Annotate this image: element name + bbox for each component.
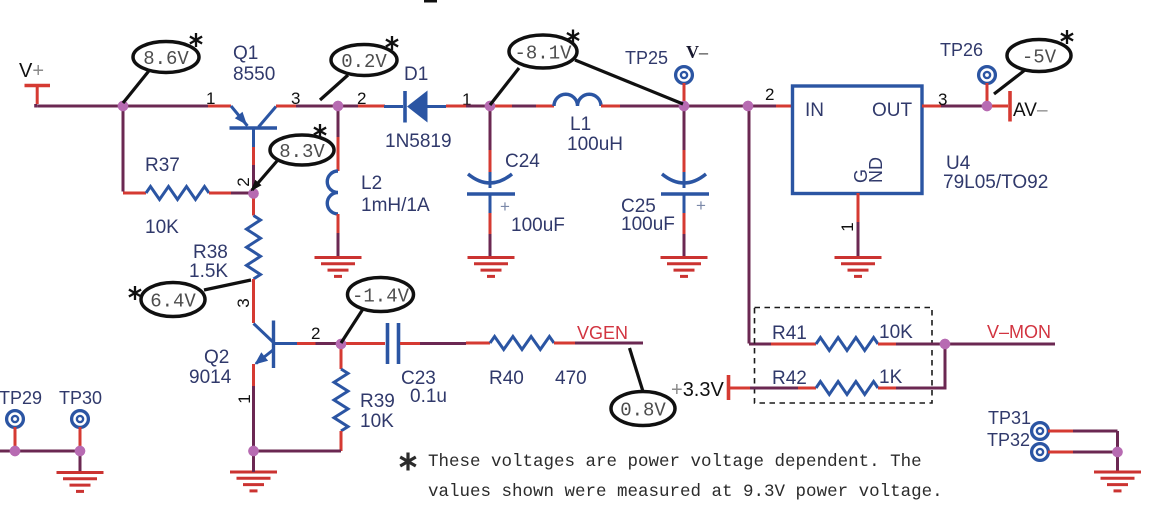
svg-text:values shown were measured at: values shown were measured at 9.3V power… xyxy=(428,482,943,502)
inductor L2 xyxy=(327,171,338,214)
svg-text:+: + xyxy=(696,196,706,215)
svg-text:R42: R42 xyxy=(772,368,807,389)
test point TP29 xyxy=(7,411,24,448)
pin 2 label Q2 base xyxy=(311,324,320,343)
callout -5V xyxy=(994,30,1073,94)
callout -1.4V xyxy=(341,278,414,344)
svg-text:10K: 10K xyxy=(145,217,179,238)
wire junction D down to C25 xyxy=(683,106,686,188)
TP32 label xyxy=(987,430,1030,450)
wire junction C down to C24 xyxy=(489,106,492,188)
wire junction F to AV- bar xyxy=(990,105,1008,108)
svg-text:0.1u: 0.1u xyxy=(410,386,447,407)
svg-text:0.2V: 0.2V xyxy=(341,51,387,73)
svg-text:These voltages are power volta: These voltages are power voltage depende… xyxy=(428,452,922,472)
svg-text:1mH/1A: 1mH/1A xyxy=(361,195,430,216)
TP25 label xyxy=(625,48,668,68)
wire junction I to C23 xyxy=(345,342,385,345)
wire U4 OUT to junction F xyxy=(922,105,987,108)
svg-text:L1: L1 xyxy=(570,114,591,135)
Q1 designator label xyxy=(233,43,275,85)
svg-text:TP32: TP32 xyxy=(987,430,1030,450)
callout 6.4V xyxy=(129,280,251,317)
ground under Q2 xyxy=(230,451,277,491)
wire junction H to V-MON xyxy=(945,343,1055,346)
wire junction I to R39 xyxy=(340,344,343,369)
wire Q2 base to junction I xyxy=(297,342,341,345)
resistor R42 xyxy=(816,382,878,395)
wire R41 left stub xyxy=(771,343,816,346)
svg-text:AV–: AV– xyxy=(1013,100,1048,121)
node C junction xyxy=(485,101,495,111)
power V+ label xyxy=(19,60,44,82)
U4 OUT pin name xyxy=(872,100,913,121)
wire junction M to ground xyxy=(1116,452,1119,472)
R37 value label xyxy=(145,217,179,238)
svg-text:R37: R37 xyxy=(145,155,180,176)
pin 3 label Q1 xyxy=(291,89,300,108)
test point TP31 xyxy=(1032,423,1073,440)
svg-text:L2: L2 xyxy=(361,173,382,194)
svg-text:-5V: -5V xyxy=(1022,47,1057,69)
svg-text:470: 470 xyxy=(555,368,587,389)
power V+ bar xyxy=(25,86,51,105)
U4 designator label xyxy=(943,153,1048,193)
svg-text:OUT: OUT xyxy=(872,100,913,121)
svg-text:V–: V– xyxy=(686,42,709,62)
wire R38 to Q2 collector xyxy=(252,279,255,323)
wire junction A to Q1 pin1 xyxy=(123,105,231,108)
wire Q1 base to junction G xyxy=(252,147,255,190)
svg-text:V–MON: V–MON xyxy=(987,322,1051,342)
svg-text:TP25: TP25 xyxy=(625,48,668,68)
wire R39 to bottom rail xyxy=(254,431,342,451)
wire D1 to junction C xyxy=(446,105,490,108)
callout -8.1V xyxy=(490,30,683,106)
node B junction xyxy=(333,101,343,111)
pin 3 label U4 OUT xyxy=(938,90,947,109)
test point TP32 xyxy=(1032,444,1073,461)
svg-text:TP31: TP31 xyxy=(988,408,1031,428)
net label V-MON xyxy=(987,322,1051,342)
svg-text:100uF: 100uF xyxy=(511,215,565,236)
D1 designator label xyxy=(404,64,428,85)
resistor R39 xyxy=(334,369,348,431)
wire TP31 to junction M xyxy=(1073,431,1118,452)
svg-text:10K: 10K xyxy=(360,411,394,432)
node E junction xyxy=(743,101,753,111)
pin 1 label U4 GND xyxy=(838,222,857,231)
wire R40 to VGEN end xyxy=(554,342,643,345)
C23 value label xyxy=(410,386,447,407)
svg-text:-1.4V: -1.4V xyxy=(352,286,410,308)
pin 2 label Q1 base xyxy=(234,177,253,186)
svg-text:8.3V: 8.3V xyxy=(279,141,325,163)
svg-text:TP30: TP30 xyxy=(59,388,102,408)
wire R41 to junction H xyxy=(878,343,945,346)
wire Q2 emitter down xyxy=(252,364,255,451)
C24 value label xyxy=(511,215,565,236)
wire junction D to junction E xyxy=(684,105,748,108)
wire junction C to L1 xyxy=(494,105,554,108)
node D junction xyxy=(679,101,689,111)
capacitor C25 xyxy=(661,174,709,194)
node H junction xyxy=(940,339,950,349)
Q2 designator label xyxy=(189,347,232,388)
wire R37 to junction G xyxy=(209,192,250,195)
svg-text:2: 2 xyxy=(765,85,774,104)
power AV- label xyxy=(1013,100,1048,121)
svg-text:0.8V: 0.8V xyxy=(620,400,666,422)
U4 IN pin name xyxy=(805,100,824,121)
test point TP26 xyxy=(979,67,996,103)
net label VGEN xyxy=(577,323,628,343)
resistor R41 xyxy=(816,338,878,351)
node J junction xyxy=(248,446,258,456)
svg-text:R39: R39 xyxy=(360,391,395,412)
L2 value label xyxy=(361,195,430,216)
R40 designator label xyxy=(489,368,524,389)
svg-text:-8.1V: -8.1V xyxy=(514,43,572,65)
transistor Q2 xyxy=(254,321,298,369)
wire junction E to U4 IN xyxy=(748,105,792,108)
C25 plus sign xyxy=(696,196,706,215)
wire +3.3V to R42 xyxy=(750,387,816,390)
wire L2 to ground xyxy=(337,214,340,258)
svg-text:6.4V: 6.4V xyxy=(150,291,196,313)
wire L1 to junction D xyxy=(601,105,684,108)
svg-text:R40: R40 xyxy=(489,368,524,389)
wire junction G to R38 xyxy=(252,194,255,216)
wire C23 to R40 xyxy=(400,342,490,346)
resistor R38 xyxy=(247,216,261,280)
svg-text:+3.3V: +3.3V xyxy=(671,379,724,401)
svg-text:VGEN: VGEN xyxy=(577,323,628,343)
L2 designator label xyxy=(361,173,382,194)
svg-text:100uF: 100uF xyxy=(621,214,675,235)
svg-text:3: 3 xyxy=(234,298,253,307)
power AV- bar xyxy=(1008,91,1012,122)
ground under L2 xyxy=(315,258,362,277)
node K junction xyxy=(10,446,20,456)
power +3.3V bar xyxy=(729,375,751,400)
node I junction xyxy=(336,339,346,349)
svg-text:Q1: Q1 xyxy=(233,43,258,64)
test point TP25 xyxy=(676,67,693,103)
top border tick xyxy=(424,0,437,3)
wire bottom left rail xyxy=(0,450,80,453)
D1 value label xyxy=(385,131,452,152)
pin 2 label D1 left xyxy=(357,89,366,108)
node M junction xyxy=(1112,447,1122,457)
U4 GND pin wire xyxy=(857,193,860,258)
wire TP30 junction to ground xyxy=(79,451,82,472)
wire R42 to junction H xyxy=(878,344,947,388)
regulator U4 box xyxy=(793,86,923,194)
transistor Q1 xyxy=(230,106,278,147)
svg-text:8550: 8550 xyxy=(233,64,275,85)
TP26 label xyxy=(940,40,983,60)
diode D1 xyxy=(384,91,446,123)
wire junction E down to R41 xyxy=(749,106,771,344)
capacitor C24 xyxy=(467,174,515,194)
node L junction xyxy=(75,446,85,456)
svg-text:2: 2 xyxy=(234,177,253,186)
svg-text:1: 1 xyxy=(206,89,215,108)
svg-text:10K: 10K xyxy=(879,322,913,343)
callout 8.3V xyxy=(251,124,335,192)
callout 0.2V xyxy=(320,36,398,100)
node F junction xyxy=(982,101,992,111)
wire junction B to D1 xyxy=(342,105,385,108)
svg-text:R41: R41 xyxy=(772,323,807,344)
svg-text:79L05/TO92: 79L05/TO92 xyxy=(943,172,1048,193)
svg-text:1N5819: 1N5819 xyxy=(385,131,452,152)
svg-text:D1: D1 xyxy=(404,64,428,85)
svg-text:GND: GND xyxy=(851,157,886,183)
C24 designator label xyxy=(505,151,540,172)
wire junction B down to L2 xyxy=(337,106,340,171)
wire top rail V+ to junction A xyxy=(36,104,123,108)
wire Q1 pin3 to junction B xyxy=(276,105,338,108)
wire C25 to ground xyxy=(683,194,686,258)
resistor R37 xyxy=(146,187,209,200)
svg-text:IN: IN xyxy=(805,100,824,121)
power +3.3V label xyxy=(671,379,724,401)
note asterisk xyxy=(400,453,416,471)
R42 designator label xyxy=(772,368,807,389)
capacitor C23 xyxy=(388,323,399,364)
svg-text:V+: V+ xyxy=(19,60,44,82)
dashed selection box xyxy=(755,308,933,404)
wire C24 to ground xyxy=(489,194,492,258)
inductor L1 xyxy=(554,94,601,106)
ground under U4 xyxy=(835,258,882,277)
note text line 1 xyxy=(428,452,922,472)
svg-text:C24: C24 xyxy=(505,151,540,172)
wire junction A down to R37 xyxy=(123,106,146,193)
svg-text:TP29: TP29 xyxy=(0,388,42,408)
pin 1 label D1 right xyxy=(462,90,471,109)
resistor R40 xyxy=(490,337,554,350)
note text line 2 xyxy=(428,482,943,502)
R41 designator label xyxy=(772,323,807,344)
TP31 label xyxy=(988,408,1031,428)
node A junction xyxy=(118,101,128,111)
svg-text:1: 1 xyxy=(838,222,857,231)
C25 value label xyxy=(621,214,675,235)
test point TP30 xyxy=(72,411,89,448)
callout 0.8V xyxy=(611,348,675,426)
pin 2 label U4 IN xyxy=(765,85,774,104)
ground under C25 xyxy=(661,258,708,277)
TP30 label xyxy=(59,388,102,408)
svg-text:1.5K: 1.5K xyxy=(189,261,228,282)
L1 designator label xyxy=(567,114,623,155)
R41 value label xyxy=(879,322,913,343)
R42 value label xyxy=(879,367,903,388)
svg-text:3: 3 xyxy=(938,90,947,109)
svg-text:100uH: 100uH xyxy=(567,134,623,155)
junction dots overlay xyxy=(10,101,1123,458)
R39 value label xyxy=(360,411,394,432)
svg-text:+: + xyxy=(500,197,510,216)
svg-text:2: 2 xyxy=(311,324,320,343)
svg-text:R38: R38 xyxy=(193,242,228,263)
node G junction xyxy=(248,188,258,198)
pin 1 label Q2 emitter xyxy=(235,394,254,403)
ground under TP32 xyxy=(1094,472,1141,491)
R38 designator label xyxy=(193,242,228,263)
svg-text:TP26: TP26 xyxy=(940,40,983,60)
TP29 label xyxy=(0,388,42,408)
R37 designator label xyxy=(145,155,180,176)
svg-text:1K: 1K xyxy=(879,367,903,388)
pin 3 label Q2 collector xyxy=(234,298,253,307)
C24 plus sign xyxy=(500,197,510,216)
C25 designator label xyxy=(621,196,656,217)
R40 value label xyxy=(555,368,587,389)
C23 designator label xyxy=(401,368,436,389)
power V- label xyxy=(686,42,709,62)
ground under C24 xyxy=(468,258,515,277)
svg-text:Q2: Q2 xyxy=(204,347,229,368)
pin 1 label Q1 xyxy=(206,89,215,108)
wire TP32 to junction M xyxy=(1073,451,1118,454)
R38 value label xyxy=(189,261,228,282)
svg-text:1: 1 xyxy=(235,394,254,403)
callout 8.6V xyxy=(123,33,202,103)
svg-text:U4: U4 xyxy=(946,153,971,174)
svg-text:8.6V: 8.6V xyxy=(143,48,189,70)
svg-text:9014: 9014 xyxy=(189,367,232,388)
U4 GND pin name xyxy=(851,157,886,183)
R39 designator label xyxy=(360,391,395,412)
ground under TP30 xyxy=(57,473,104,492)
